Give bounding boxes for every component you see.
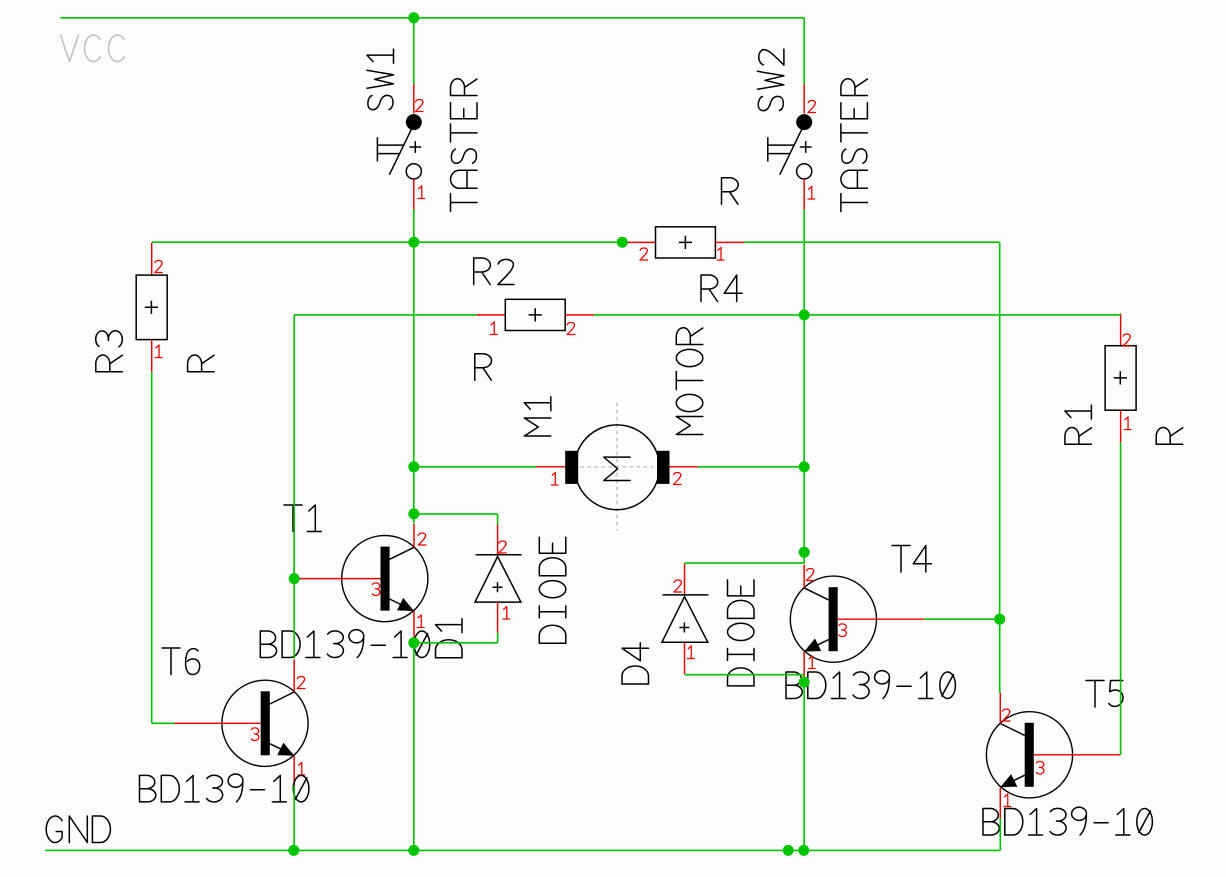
junction T4 base node (994, 614, 1005, 625)
label T4 (892, 546, 931, 573)
junction motor pin1 node (408, 461, 419, 472)
wire D1 anode link (414, 633, 498, 643)
pin 3 T4 (839, 624, 847, 637)
pin 2 T5 (1002, 709, 1010, 721)
pin 1 SW1 (418, 186, 425, 199)
value DIODE D4 (728, 580, 755, 686)
junction GND-T4 (798, 845, 809, 856)
junction GND-T6 (288, 845, 299, 856)
pin 2 M1 (673, 473, 681, 485)
value TASTER SW2 (841, 79, 868, 212)
transistor T5 (986, 693, 1120, 819)
wire R4 to x1000 drop (744, 242, 1000, 693)
wire T1 emitter to GND (413, 643, 415, 851)
resistor R2 (477, 299, 594, 330)
pin 2 R2 (567, 323, 575, 335)
pin 1 M1 (551, 472, 558, 485)
net label GND (46, 816, 110, 843)
value DIODE D1 (539, 537, 566, 643)
pin 2 R4 (640, 248, 648, 260)
pin 3 T6 (251, 728, 259, 741)
diode D4 (662, 563, 709, 674)
wire VCC rail top (60, 17, 804, 19)
label R2 (474, 258, 514, 285)
label SW2 (757, 49, 784, 111)
value BD139-10 T4 (786, 671, 955, 699)
wire x414 center drop (413, 242, 415, 523)
switch SW2 (768, 84, 812, 210)
pin 2 T6 (297, 677, 305, 689)
value R of R3 (188, 355, 215, 372)
resistor R3 (136, 243, 167, 372)
junction T1 base node (289, 573, 300, 584)
pin 1 D1 (503, 606, 510, 619)
wire motor pin2 link (698, 466, 804, 468)
transistor T6 (174, 660, 308, 788)
label D1 (436, 619, 463, 658)
label SW1 (367, 49, 394, 110)
pin 1 SW2 (808, 186, 815, 199)
value BD139-10 T1 (260, 630, 429, 658)
wire base row y315 left (294, 314, 476, 316)
value MOTOR (676, 328, 703, 435)
wire T4 emitter to GND (803, 682, 805, 850)
wire SW1 pin1 to node row (413, 210, 415, 243)
junction D4 cathode node (799, 547, 810, 558)
junction node SW1-R3-R4 (408, 237, 419, 248)
wire R1 drop to T5 base (1120, 442, 1122, 754)
label R4 (701, 275, 742, 302)
pin 1 T6 (298, 762, 305, 775)
junction SW2-R2-R1 node (799, 309, 810, 320)
value BD139-10 T6 (140, 774, 309, 802)
wire T6 emitter to GND (293, 785, 295, 850)
pin 1 R1 (1124, 417, 1131, 430)
pin 3 T5 (1036, 761, 1044, 774)
junction T1 emitter node (408, 637, 419, 648)
junction VCC-SW1 (408, 12, 419, 23)
wire SW2 pin1 down (803, 210, 805, 315)
wire SW1 top drop (413, 18, 415, 84)
pin 1 T5 (1004, 794, 1011, 807)
value R of R1 (1156, 428, 1183, 445)
wire x294 drop (293, 315, 295, 659)
wire SW2 top drop (803, 18, 805, 84)
pin 2 SW1 (415, 100, 423, 112)
pin 2 D4 (674, 580, 682, 592)
pin 2 SW2 (808, 101, 816, 113)
transistor T4 (790, 565, 924, 684)
wire T4 base link (925, 618, 1000, 620)
wire D1 cathode link (414, 514, 498, 525)
junction GND-T1 (408, 845, 419, 856)
label M1 (524, 397, 551, 436)
pin 2 R1 (1123, 334, 1131, 346)
resistor R1 (1105, 314, 1136, 443)
junction GND stray (783, 845, 794, 856)
pin 1 D4 (687, 646, 694, 659)
pin 1 R3 (155, 345, 162, 358)
value R of R4 (722, 178, 739, 205)
pin 2 T1 (418, 533, 426, 545)
wire D4 cathode link (685, 562, 805, 564)
net label VCC (61, 35, 125, 62)
motor M glyph (604, 457, 631, 480)
wire T5 emitter riser (999, 818, 1001, 850)
value TASTER SW1 (451, 79, 478, 212)
motor M1 (536, 403, 698, 531)
pin 2 D1 (499, 541, 507, 553)
pin 1 R4 (717, 247, 724, 260)
pin 1 T4 (808, 656, 815, 669)
junction R4 pin2 node (617, 237, 628, 248)
diode D1 (475, 523, 522, 634)
label D4 (622, 643, 649, 684)
label T6 (162, 648, 200, 675)
switch SW1 (377, 84, 421, 210)
wire D4 anode link (685, 674, 805, 676)
junction motor pin2 node (799, 461, 810, 472)
label T5 (1086, 681, 1123, 708)
pin 1 T1 (417, 615, 424, 628)
wire R3 to T6 base (152, 372, 175, 724)
junction D1 cathode node (408, 508, 419, 519)
junction T4 emitter node (799, 677, 810, 688)
resistor R4 (627, 227, 744, 258)
wire node row y242 (152, 241, 623, 243)
pin 3 T1 (372, 583, 380, 596)
pin 2 R3 (155, 261, 163, 273)
wire R2 to R1 row y315 (594, 314, 1121, 316)
wire x804 drop to T4 (803, 315, 805, 563)
label R3 (96, 331, 123, 372)
pin 2 T4 (806, 569, 814, 581)
pin 1 R2 (490, 322, 497, 335)
label R1 (1065, 405, 1092, 444)
label T1 (284, 505, 321, 532)
transistor T1 (294, 524, 428, 643)
value BD139-10 T5 (983, 807, 1152, 835)
value R of R2 (475, 354, 492, 381)
wire motor pin1 link (414, 466, 536, 468)
wire GND rail bottom (45, 849, 1000, 851)
